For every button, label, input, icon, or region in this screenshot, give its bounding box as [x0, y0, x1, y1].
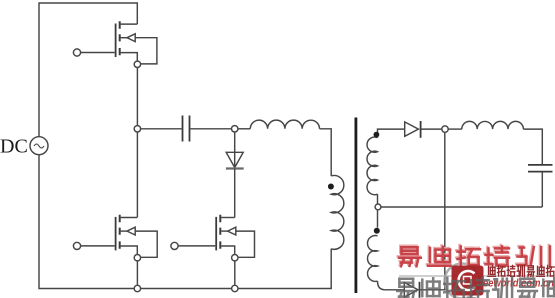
- transformer T1 primary winding: [331, 176, 344, 250]
- wire L2 to C2: [523, 129, 542, 165]
- wire C1 to node B: [190, 128, 231, 130]
- transformer T1 core: [354, 118, 357, 294]
- watermark red title: [398, 246, 420, 265]
- wire C2 to output return: [541, 172, 543, 207]
- svg-text:DC: DC: [0, 136, 28, 158]
- wire secondary bottom to D2: [378, 281, 405, 290]
- diode D1: [405, 121, 421, 138]
- diode D3: [226, 152, 244, 168]
- wire node B down to D3: [234, 132, 236, 153]
- wire top rail and left rail: [39, 3, 137, 137]
- transformer T1 secondary top lead: [378, 129, 405, 138]
- wire Q1 source to node A: [136, 67, 138, 126]
- watermark logo square: [452, 266, 484, 296]
- transistor Q1: [73, 21, 156, 67]
- inductor L2: [448, 128, 462, 130]
- wire D3 to Q3 drain: [234, 169, 236, 218]
- node B junction: [232, 126, 238, 132]
- wire D2 to node C: [420, 132, 445, 289]
- polarity dot secondary bottom: [374, 228, 380, 234]
- wire secondary to center tap: [377, 194, 379, 204]
- watermark small red text: [488, 266, 496, 277]
- diode D2: [404, 282, 419, 298]
- wire center tap to output return: [381, 206, 542, 208]
- node C junction: [442, 126, 448, 132]
- watermark logo circle: [445, 264, 480, 298]
- watermark underline: [399, 275, 555, 277]
- capacitor C1: [183, 116, 190, 142]
- wire left rail lower + bottom rail + transformer primary bottom lead: [39, 155, 331, 289]
- inductor L1: [238, 128, 251, 130]
- wire Q2 source to bottom rail: [136, 261, 138, 286]
- transformer T1 secondary bottom winding: [368, 236, 378, 282]
- capacitor C2: [528, 165, 553, 172]
- wire node A to Q2 drain: [136, 132, 138, 218]
- node A junction: [134, 126, 140, 132]
- watermark grey slogan: [397, 279, 416, 298]
- polarity dot secondary top: [374, 132, 380, 138]
- center tap junction: [375, 204, 381, 210]
- junction Q3-source rail: [232, 285, 238, 291]
- DC source V1: [30, 137, 48, 155]
- wire L1 to transformer primary: [320, 129, 332, 176]
- transformer T1 secondary top winding: [367, 137, 377, 195]
- transistor Q2: [73, 215, 157, 261]
- transformer T1 secondary bottom lead: [377, 210, 379, 228]
- junction Q2-source rail: [134, 285, 140, 291]
- polarity dot primary: [328, 184, 334, 190]
- wire D1 to node C: [421, 128, 442, 130]
- transistor Q3: [171, 215, 255, 261]
- wire Q3 source to bottom rail: [234, 261, 236, 286]
- wire node A to C1: [140, 128, 181, 130]
